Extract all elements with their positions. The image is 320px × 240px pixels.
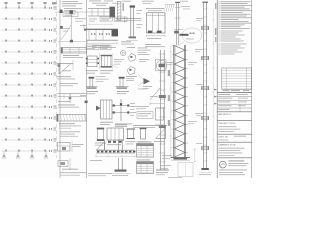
detail I anchor cross [113,99,136,127]
detail F2 mini elevation 1 [86,76,109,94]
detail D gusset box [145,8,165,47]
bottom text row left [88,160,112,176]
foundation beam elevation [96,140,135,158]
revision table [217,68,251,93]
general notes list [219,1,252,54]
title block border [217,0,251,178]
top edge text labels [89,1,188,6]
connection detail balloon [180,28,202,45]
foundation pier below truss [178,148,196,177]
dwg no box [217,136,251,142]
detail E washer diamond upper [127,47,136,61]
beam detail y118 [57,114,87,129]
detail on match line y24 [55,10,88,43]
schedule table 1 [137,142,154,158]
detail A member with end plate [88,7,115,17]
section title row y126 [115,125,167,128]
right column annotations [188,18,203,144]
brace diag detail right of G [150,88,164,105]
bottom-left details y162 [58,158,86,176]
box on column G y108 [136,106,164,120]
truss tower laced column [172,45,188,157]
detail H column w/ wedge [96,100,113,125]
svg-text:DWG. NO.: DWG. NO. [218,137,229,139]
vertical match line x60 [59,0,61,178]
detail E1 splice plan [86,56,99,74]
detail E2 beam section [100,53,114,74]
right column elevation [199,2,212,175]
detail A hatched column strip [117,2,121,21]
grid dashed edge line [56,0,58,158]
angle detail y95 [58,94,87,108]
right column dimension line [212,8,214,160]
detail B left stub [80,24,87,31]
detail C column splice [121,5,143,44]
grid column markers top [4,2,56,8]
project title box [217,123,251,134]
bottom row column section [126,129,136,144]
detail E3 notes leader [111,59,124,68]
anchor detail labels y88 [143,86,152,89]
detail F3 mini elevation 2 [116,77,135,94]
tower upper column [174,2,190,46]
detail E note block 3rows [138,48,151,55]
vertical border x86.5 [86,0,88,178]
truss bottom dimension text [160,155,182,177]
truss base [171,157,191,160]
bottom row small section 1 [95,128,106,146]
detail y146 [58,141,84,152]
detail B beam elevation [87,29,119,48]
architect box [217,113,251,120]
bottom row angle brace [154,125,166,142]
column elevation G [156,50,174,175]
firm logo box [219,161,248,175]
detail A label boxes [89,3,127,25]
title block stamps rows [217,94,251,112]
margin rotated text [215,3,216,42]
svg-text:ARCHITECT:: ARCHITECT: [218,113,231,116]
drawing title box [217,144,251,158]
bracket detail y68 [57,60,75,79]
title block arrows left [214,89,217,105]
detail D hatch band [164,5,175,12]
schedule table 2 [137,160,154,174]
border junction mark [80,95,88,103]
detail E washer ring [121,51,126,56]
bottom row narrow plate [139,128,148,145]
truss dimension column [168,46,172,157]
strip text y133 [60,132,80,137]
beam detail y48 [61,47,87,58]
detail F gusset wedge cluster [138,59,150,89]
svg-text:DRAWING TITLE:: DRAWING TITLE: [218,144,236,147]
framing plan grid [1,7,56,153]
detail E washer diamond lower [126,67,137,80]
svg-text:PROJECT TITLE:: PROJECT TITLE: [218,123,236,125]
strip text block top [62,1,82,16]
grid column markers bottom [2,151,48,158]
strip text y84 [60,83,78,86]
bottom row base plate plan [107,128,124,145]
foundation stub below [110,158,131,176]
detail E label boxes row [86,45,111,50]
